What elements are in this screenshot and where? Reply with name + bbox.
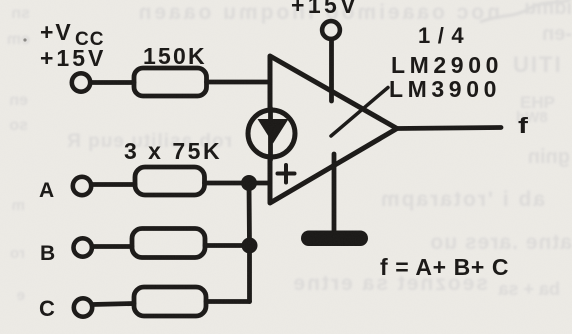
- svg-text:C: C: [39, 296, 55, 321]
- svg-text:1/4: 1/4: [418, 23, 471, 48]
- svg-text:ro: ro: [10, 245, 25, 262]
- svg-text:+15V: +15V: [40, 45, 106, 71]
- svg-text:e: e: [17, 287, 25, 304]
- svg-text:A: A: [39, 179, 54, 202]
- svg-text:gnin: gnin: [528, 146, 570, 168]
- svg-text:f: f: [518, 113, 528, 138]
- svg-text:+15V: +15V: [291, 0, 359, 18]
- svg-text:m: m: [12, 197, 25, 214]
- svg-text:LM2900: LM2900: [391, 52, 503, 78]
- svg-text:150K: 150K: [143, 43, 207, 69]
- svg-text:ba + sa: ba + sa: [497, 279, 560, 299]
- svg-text:-en: -en: [542, 23, 572, 45]
- svg-text:sn: sn: [11, 5, 30, 22]
- svg-text:ab i 'rotarapm: ab i 'rotarapm: [379, 188, 545, 211]
- svg-text:UITI: UITI: [513, 52, 563, 77]
- svg-text:3 x 75K: 3 x 75K: [124, 138, 222, 164]
- svg-text:atne .ares uo: atne .ares uo: [429, 231, 572, 254]
- svg-text:so: so: [9, 117, 28, 134]
- svg-text:em: em: [7, 31, 30, 48]
- svg-text:B: B: [40, 242, 55, 265]
- svg-text:LM3900: LM3900: [389, 76, 501, 102]
- svg-text:f = A+ B+ C: f = A+ B+ C: [380, 254, 509, 280]
- svg-text:en: en: [9, 92, 28, 109]
- svg-text:+V: +V: [40, 19, 73, 45]
